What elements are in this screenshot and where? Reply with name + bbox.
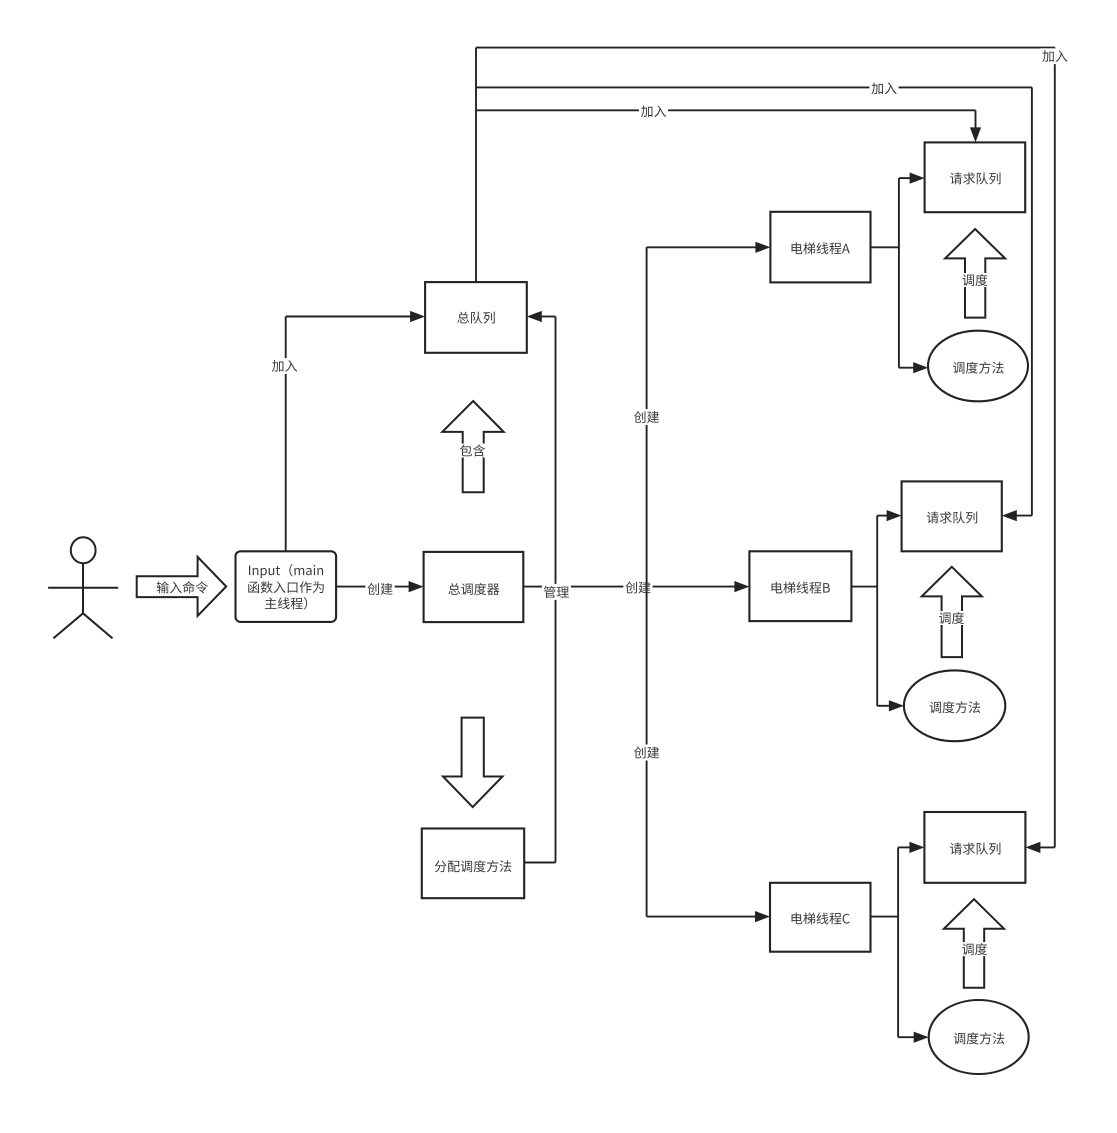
arrowhead into 总队列 right [527,311,542,322]
fat up-arrow 调度 A [945,229,1005,318]
label 调度 B [937,611,966,625]
label 调度 A [961,273,990,287]
actor: head [71,537,96,563]
label 包含 [458,444,487,458]
arrowhead into 请求队列A left [910,173,925,184]
wire: 加入 rail 3 (to 请求队列A top) [476,109,976,111]
actor: body [82,563,84,613]
label 创建 (总调度器 to 电梯线程B) [623,580,652,596]
actor: arms [48,587,118,589]
arrowhead into 请求队列A top [970,127,981,142]
arrowhead into 请求队列C right [1025,842,1040,853]
box 总调度器 [424,552,524,622]
fat up-arrow 调度 C [944,899,1004,988]
box 电梯线程C [770,883,871,952]
wire: 电梯线程C fanout [871,916,899,918]
fat right-arrow 输入命令 [137,557,227,616]
label 输入命令 [157,581,208,593]
arrowhead into 调度方法A left [913,362,928,373]
wire: 加入 rail 1 (top, to 请求队列C) [476,47,1055,49]
box 请求队列A [925,142,1026,212]
box 分配调度方法 [422,829,524,899]
arrowhead into 总调度器 left [409,581,424,592]
wire: 创建 branch to 电梯线程C [647,916,757,918]
ellipse 调度方法A [928,331,1028,402]
wire: 电梯线程B fanout [851,586,877,588]
box 电梯线程B [749,551,851,621]
label 加入 (rail 2) [869,81,898,97]
arrowhead into 总队列 left [410,311,425,322]
arrowhead into 请求队列B left [887,510,902,521]
wire: Input to 总调度器 (创建) [336,586,411,588]
wire: 电梯线程A fanout [871,246,899,248]
box 电梯线程A [770,212,870,283]
wire: 加入 rail 2 (to 请求队列B) [476,86,1032,88]
arrowhead into 电梯线程C left [755,911,770,922]
arrowhead into 电梯线程B left [734,581,749,592]
label 加入 (Input to 总队列) [270,358,299,374]
arrowhead into 调度方法B left [889,700,904,711]
wire: 创建 trunk vertical [646,247,648,916]
ellipse 调度方法B [904,670,1005,741]
label 创建 (to 电梯线程C) [632,745,661,761]
wire: 总队列 top spine [475,48,477,283]
actor: left leg [53,613,83,638]
label 创建 (to 电梯线程A) [632,409,661,425]
label 管理 [542,584,571,600]
arrowhead into 请求队列B right [1002,510,1017,521]
box 总队列 [425,282,527,353]
label 创建 (Input to 总调度器) [365,581,394,597]
box 请求队列C [924,812,1025,883]
wire: 创建 branch to 电梯线程A [647,246,757,248]
ellipse 调度方法C [929,1000,1029,1074]
actor: right leg [83,613,113,638]
fat down-arrow (分配调度方法) [443,718,503,808]
wire: 总调度器 to 电梯线程B (管理/创建) [523,586,736,588]
arrowhead into 调度方法C left [914,1032,929,1043]
label 加入 (rail 1) [1040,48,1069,64]
fat up-arrow 调度 B [922,567,982,657]
label 调度 C [960,942,989,956]
wire: 总队列/分配调度方法 vertical link [555,317,557,863]
arrowhead into 请求队列C left [909,842,924,853]
box Input (main...) [236,551,337,622]
arrowhead into 电梯线程A left [755,242,770,253]
box 请求队列B [902,481,1002,551]
fat up-arrow 包含 [442,401,503,492]
label 加入 (rail 3) [639,103,668,119]
wire: Input to 总队列 (加入) [285,317,287,552]
